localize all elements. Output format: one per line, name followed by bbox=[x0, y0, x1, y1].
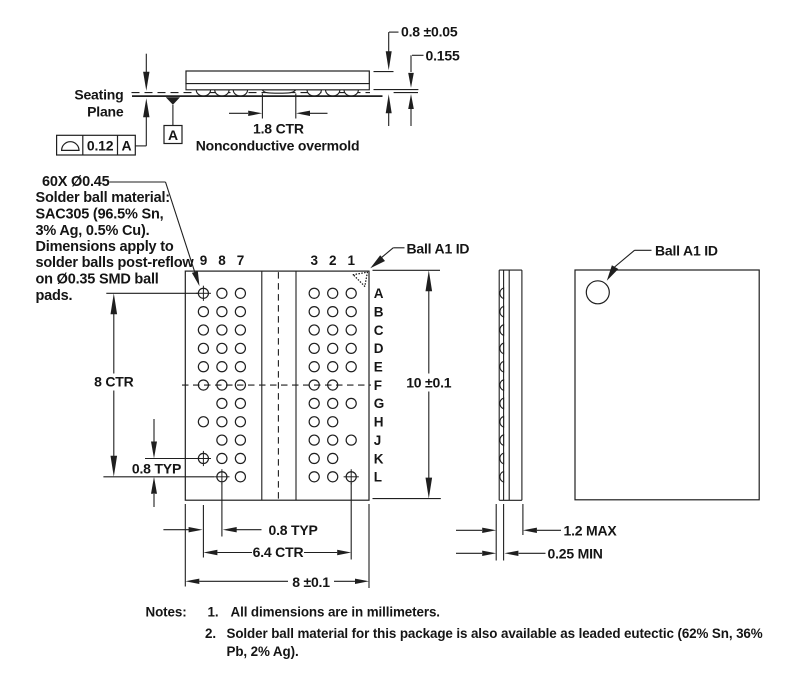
ball H7 bbox=[235, 417, 245, 427]
ball L3 bbox=[309, 472, 319, 482]
svg-text:60X Ø0.45: 60X Ø0.45 bbox=[42, 174, 110, 190]
substrate cross-section bbox=[186, 84, 369, 90]
ball H3 bbox=[309, 417, 319, 427]
ball E1 bbox=[346, 362, 356, 372]
leader from 60X note to ball A9 bbox=[110, 182, 200, 286]
dimension 8 ±0.1 bbox=[185, 574, 369, 590]
ball B9 bbox=[198, 307, 208, 317]
vertical dashed centreline bbox=[277, 272, 279, 499]
ball B3 bbox=[309, 307, 319, 317]
datum A triangle bbox=[166, 97, 180, 125]
svg-text:0.8 TYP: 0.8 TYP bbox=[269, 522, 318, 538]
ball A7 bbox=[235, 288, 245, 298]
ball C3 bbox=[309, 325, 319, 335]
dimension 1.8 CTR bbox=[229, 94, 328, 137]
ball C2 bbox=[328, 325, 338, 335]
svg-text:Plane: Plane bbox=[87, 104, 124, 120]
svg-text:L: L bbox=[374, 470, 382, 485]
svg-text:1.: 1. bbox=[208, 605, 219, 620]
ball A3 bbox=[309, 288, 319, 298]
ball K7 bbox=[235, 453, 245, 463]
svg-text:2: 2 bbox=[329, 253, 336, 268]
side view extension lines bbox=[496, 504, 523, 561]
ball B1 bbox=[346, 307, 356, 317]
ball B7 bbox=[235, 307, 245, 317]
ball A9 (crosshair) bbox=[196, 286, 211, 301]
dimension 1.2 MAX bbox=[456, 523, 617, 539]
notes text bbox=[146, 605, 763, 660]
column labels bbox=[200, 253, 356, 268]
ball B8 bbox=[217, 307, 227, 317]
svg-text:J: J bbox=[374, 433, 381, 448]
ball D1 bbox=[346, 343, 356, 353]
ball L2 bbox=[328, 472, 338, 482]
ball G3 bbox=[309, 398, 319, 408]
ball D3 bbox=[309, 343, 319, 353]
ball G8 bbox=[217, 398, 227, 408]
ball J2 bbox=[328, 435, 338, 445]
seating plane solid line bbox=[132, 95, 383, 97]
ball K2 bbox=[328, 453, 338, 463]
svg-text:0.8 TYP: 0.8 TYP bbox=[132, 460, 181, 476]
ball A2 bbox=[328, 288, 338, 298]
svg-text:8 CTR: 8 CTR bbox=[94, 374, 134, 390]
svg-text:0.155: 0.155 bbox=[426, 48, 460, 64]
svg-text:H: H bbox=[374, 415, 384, 430]
ball A1 bbox=[346, 288, 356, 298]
svg-text:0.12: 0.12 bbox=[87, 137, 114, 153]
ball J8 bbox=[217, 435, 227, 445]
ball L8 (crosshair) bbox=[214, 469, 229, 484]
svg-text:1: 1 bbox=[348, 253, 356, 268]
svg-text:F: F bbox=[374, 378, 382, 393]
svg-text:3% Ag, 0.5% Cu).: 3% Ag, 0.5% Cu). bbox=[36, 223, 150, 239]
ball F7 bbox=[235, 380, 245, 390]
svg-text:Pb, 2% Ag).: Pb, 2% Ag). bbox=[227, 644, 299, 659]
ball E8 bbox=[217, 362, 227, 372]
cross-section solder balls bbox=[196, 90, 358, 96]
svg-text:0.8 ±0.05: 0.8 ±0.05 bbox=[401, 24, 458, 40]
ball J3 bbox=[309, 435, 319, 445]
ball L1 (crosshair) bbox=[344, 469, 359, 484]
ball D7 bbox=[235, 343, 245, 353]
front view centre strip lines bbox=[262, 271, 296, 500]
dimension 0.155 bbox=[374, 48, 460, 127]
ball G7 bbox=[235, 398, 245, 408]
ball H9 bbox=[198, 417, 208, 427]
svg-text:3: 3 bbox=[311, 253, 319, 268]
ball G1 bbox=[346, 398, 356, 408]
svg-text:Seating: Seating bbox=[74, 87, 123, 103]
extension lines below front view bbox=[185, 483, 369, 588]
label Ball A1 ID (back view) bbox=[607, 243, 718, 281]
svg-text:D: D bbox=[374, 341, 384, 356]
ball A8 bbox=[217, 288, 227, 298]
ball K3 bbox=[309, 453, 319, 463]
svg-text:A: A bbox=[374, 286, 384, 301]
ball A1 ID dotted chamfer bbox=[353, 272, 367, 286]
ball F8 bbox=[217, 380, 227, 390]
svg-text:E: E bbox=[374, 360, 383, 375]
svg-text:Solder ball material:: Solder ball material: bbox=[36, 190, 170, 206]
svg-text:8 ±0.1: 8 ±0.1 bbox=[292, 574, 330, 590]
back view outline bbox=[575, 270, 759, 500]
svg-text:Ball A1 ID: Ball A1 ID bbox=[655, 243, 718, 259]
ball G2 bbox=[328, 398, 338, 408]
ball B2 bbox=[328, 307, 338, 317]
svg-text:G: G bbox=[374, 396, 384, 411]
svg-text:solder balls post-reflow: solder balls post-reflow bbox=[36, 255, 195, 271]
ball C9 bbox=[198, 325, 208, 335]
horizontal dashed centreline row F bbox=[182, 384, 371, 386]
dimension 10 ±0.1 bbox=[373, 270, 452, 498]
svg-text:A: A bbox=[121, 137, 131, 153]
svg-text:C: C bbox=[374, 323, 384, 338]
dimension 0.8 ±0.05 bbox=[374, 24, 458, 127]
svg-text:6.4 CTR: 6.4 CTR bbox=[253, 544, 304, 560]
seating plane tolerance arrows bbox=[135, 54, 149, 146]
svg-text:10 ±0.1: 10 ±0.1 bbox=[406, 375, 452, 391]
svg-text:SAC305 (96.5% Sn,: SAC305 (96.5% Sn, bbox=[36, 207, 164, 223]
svg-text:9: 9 bbox=[200, 253, 207, 268]
ball D9 bbox=[198, 343, 208, 353]
svg-text:pads.: pads. bbox=[36, 288, 73, 304]
ball F2 bbox=[328, 380, 338, 390]
solder ball note text block bbox=[36, 174, 195, 304]
ball H2 bbox=[328, 417, 338, 427]
ball F9 bbox=[198, 380, 208, 390]
svg-text:8: 8 bbox=[218, 253, 226, 268]
svg-text:Nonconductive overmold: Nonconductive overmold bbox=[196, 137, 360, 153]
svg-text:Solder ball material for this: Solder ball material for this package is… bbox=[227, 626, 763, 641]
datum A box bbox=[164, 126, 182, 144]
label Seating Plane bbox=[74, 87, 124, 120]
dimension 0.8 TYP (vertical) bbox=[132, 419, 196, 507]
svg-text:2.: 2. bbox=[205, 626, 216, 641]
feature control frame (flatness 0.12 A) bbox=[57, 135, 136, 155]
package body (overmold) cross-section bbox=[186, 71, 369, 84]
ball E3 bbox=[309, 362, 319, 372]
ball D2 bbox=[328, 343, 338, 353]
svg-text:on Ø0.35 SMD ball: on Ø0.35 SMD ball bbox=[36, 272, 159, 288]
ball E2 bbox=[328, 362, 338, 372]
ball C8 bbox=[217, 325, 227, 335]
ball E9 bbox=[198, 362, 208, 372]
dimension 0.25 MIN bbox=[456, 546, 603, 562]
side view outline bbox=[499, 270, 522, 500]
ball C1 bbox=[346, 325, 356, 335]
svg-text:A: A bbox=[168, 127, 178, 143]
dimension 6.4 CTR bbox=[203, 544, 351, 560]
ball F3 bbox=[309, 380, 319, 390]
svg-text:B: B bbox=[374, 305, 384, 320]
svg-text:1.2 MAX: 1.2 MAX bbox=[564, 523, 618, 539]
svg-text:0.25 MIN: 0.25 MIN bbox=[548, 546, 603, 562]
row labels bbox=[374, 286, 384, 485]
cross-section centre collapsed ball bbox=[262, 90, 295, 93]
svg-text:All dimensions are in millimet: All dimensions are in millimeters. bbox=[231, 605, 440, 620]
dimension 8 CTR bbox=[94, 293, 214, 477]
seating plane dashed line bbox=[132, 92, 371, 94]
svg-text:K: K bbox=[374, 451, 384, 466]
svg-text:Dimensions apply to: Dimensions apply to bbox=[36, 239, 174, 255]
ball C7 bbox=[235, 325, 245, 335]
front view package outline bbox=[185, 271, 369, 500]
back view ball A1 ID circle bbox=[586, 281, 609, 304]
svg-text:Ball A1 ID: Ball A1 ID bbox=[407, 241, 470, 257]
ball K9 (crosshair) bbox=[196, 451, 211, 466]
dimension 0.8 TYP (bottom) bbox=[163, 522, 317, 538]
ball H8 bbox=[217, 417, 227, 427]
svg-text:1.8 CTR: 1.8 CTR bbox=[253, 120, 304, 136]
svg-text:Notes:: Notes: bbox=[146, 605, 187, 620]
ball K8 bbox=[217, 453, 227, 463]
label Ball A1 ID (front view) bbox=[370, 241, 469, 269]
ball J7 bbox=[235, 435, 245, 445]
svg-text:7: 7 bbox=[237, 253, 244, 268]
ball L7 bbox=[235, 472, 245, 482]
label Nonconductive overmold bbox=[196, 137, 360, 153]
ball D8 bbox=[217, 343, 227, 353]
ball J1 bbox=[346, 435, 356, 445]
ball E7 bbox=[235, 362, 245, 372]
side view solder ball bumps bbox=[500, 288, 504, 482]
